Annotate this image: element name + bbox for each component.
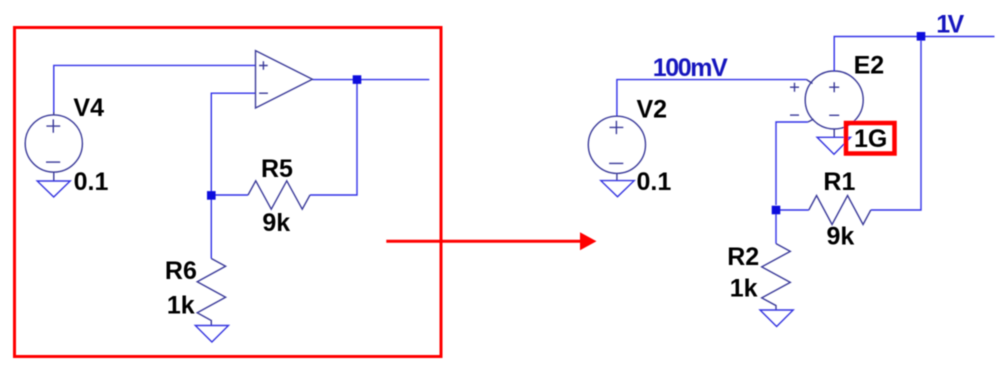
svg-text:9k: 9k [827, 223, 855, 251]
wire E2 bottom to ground [833, 129, 835, 137]
ground below R6 [195, 326, 228, 343]
resistor R1 [809, 196, 871, 225]
ground below V4 [37, 181, 70, 197]
ground below V2 [601, 181, 634, 197]
svg-text:R6: R6 [165, 257, 197, 285]
red box around gain value [846, 123, 895, 154]
ground below E2 [817, 137, 851, 154]
voltage source V2 [588, 116, 645, 180]
svg-text:V4: V4 [73, 94, 104, 122]
dependent source E2 [790, 71, 863, 129]
svg-text:V2: V2 [637, 95, 668, 123]
svg-text:R5: R5 [261, 155, 293, 183]
resistor R5 [248, 181, 310, 209]
svg-text:1k: 1k [730, 274, 758, 302]
wire V4 top to op-amp +in [54, 65, 256, 114]
svg-text:100mV: 100mV [653, 54, 728, 82]
wire E2 - control pin to feedback node [776, 122, 808, 205]
wire V2 top to E2 + control pin [617, 80, 807, 117]
resistor R6 [197, 259, 225, 326]
svg-text:R1: R1 [823, 168, 855, 196]
svg-text:1k: 1k [167, 291, 195, 319]
wire top rail down to R1 right [871, 40, 921, 210]
junction at feedback node [207, 191, 216, 200]
svg-text:9k: 9k [262, 209, 290, 237]
red highlight rectangle around left circuit [15, 28, 442, 357]
red transform arrow [386, 240, 581, 243]
svg-text:1G: 1G [854, 125, 887, 153]
wire R5 left lead to junction [211, 195, 248, 259]
wire E2 output to top rail [834, 37, 994, 72]
wire op-amp output [312, 79, 429, 81]
svg-text:E2: E2 [854, 51, 885, 79]
wire junction down to R2 [775, 214, 777, 244]
junction at feedback node right [772, 206, 781, 215]
svg-text:0.1: 0.1 [74, 168, 109, 196]
voltage source V4 [25, 112, 82, 181]
op-amp U1 [256, 51, 313, 108]
ground below R2 [760, 310, 793, 327]
wire feedback node to op-amp -in [211, 93, 255, 195]
svg-text:1V: 1V [936, 11, 964, 39]
wire R1 left lead [776, 209, 809, 211]
svg-text:R2: R2 [727, 243, 759, 271]
junction on top rail [917, 32, 926, 41]
junction at op-amp output [353, 75, 362, 84]
svg-text:0.1: 0.1 [637, 168, 672, 196]
wire output junction down to R5 right [310, 80, 357, 195]
resistor R2 [762, 244, 791, 310]
